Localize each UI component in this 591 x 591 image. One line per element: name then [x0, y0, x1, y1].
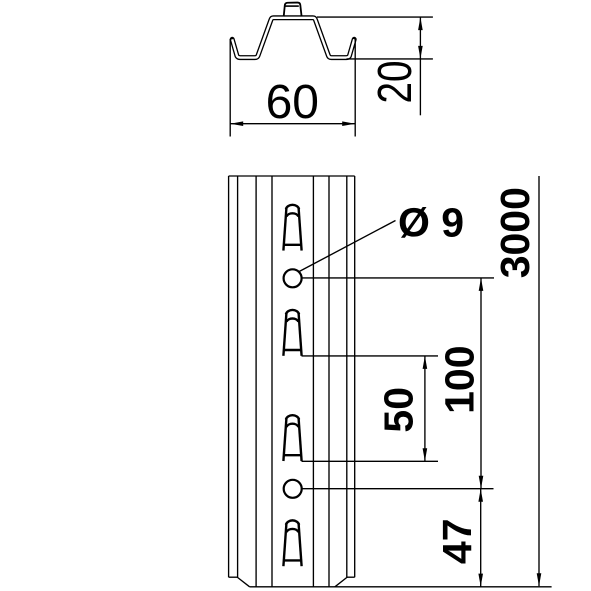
- rail edge line v7: [346, 176, 348, 578]
- svg-text:50: 50: [376, 387, 422, 433]
- slot 1: [283, 205, 301, 251]
- dimension 20 line: [419, 17, 421, 115]
- rail chamfer left: [238, 578, 250, 587]
- slot 4: [283, 520, 301, 566]
- rail edge line v4: [271, 176, 273, 587]
- dimension 20 extension line top: [317, 16, 433, 18]
- rail front view top edge: [229, 175, 355, 177]
- dimension 47 line: [480, 489, 482, 587]
- dimension 100 arrow up: [479, 278, 484, 291]
- dimension 50 extension line bottom: [302, 460, 439, 462]
- svg-text:47: 47: [434, 518, 480, 564]
- leader line for diameter 9: [299, 221, 395, 272]
- svg-text:Ø 9: Ø 9: [398, 200, 464, 246]
- dimension 60 extension line left: [229, 39, 231, 137]
- svg-text:60: 60: [266, 76, 319, 129]
- rail edge line v3: [255, 176, 257, 587]
- rail bottom tick right: [347, 576, 355, 578]
- slot 2: [283, 310, 301, 356]
- rail bottom edge and extension line: [250, 586, 552, 588]
- hole circle 2: [284, 480, 302, 498]
- dimension 100 line: [480, 278, 482, 489]
- dimension 50 extension line top: [302, 355, 439, 357]
- profile top tab inner fold line: [285, 5, 298, 7]
- profile cross-section (hat rail section, double-line sheet): [232, 18, 354, 58]
- dimension 47 arrow down: [478, 574, 483, 587]
- svg-text:20: 20: [369, 61, 422, 104]
- rail edge line v6: [328, 176, 330, 587]
- rail bottom tick left: [229, 576, 238, 578]
- svg-text:3000: 3000: [492, 187, 538, 278]
- rail chamfer right: [335, 578, 347, 587]
- dimension 60 line: [230, 123, 355, 125]
- dimension 60 extension line right: [354, 40, 356, 137]
- extension line from hole 2: [302, 488, 493, 490]
- dimension 50 line: [424, 356, 426, 461]
- dimension 3000 arrow down: [537, 573, 542, 586]
- hole circle 1: [284, 269, 302, 287]
- rail edge line v2: [237, 176, 239, 578]
- dimension 20 arrow up: [418, 17, 423, 30]
- profile top tab: [284, 3, 302, 17]
- dimension 60 arrow right: [342, 121, 355, 126]
- dimension 50 arrow down: [423, 448, 428, 461]
- svg-text:100: 100: [437, 345, 483, 413]
- dimension 100 arrow down: [479, 476, 484, 489]
- dimension 20 extension line bottom: [347, 58, 433, 60]
- dimension 60 arrow left: [230, 121, 243, 126]
- dimension 47 arrow up: [478, 489, 483, 502]
- rail edge line v8: [354, 176, 356, 577]
- extension line from hole 1: [302, 277, 494, 279]
- rail edge line v5: [312, 176, 314, 587]
- slot 3: [283, 415, 301, 461]
- dimension 3000 line: [538, 176, 540, 586]
- rail edge line v1: [228, 176, 230, 577]
- dimension 20 arrow down: [418, 46, 423, 59]
- dimension 50 arrow up: [423, 356, 428, 369]
